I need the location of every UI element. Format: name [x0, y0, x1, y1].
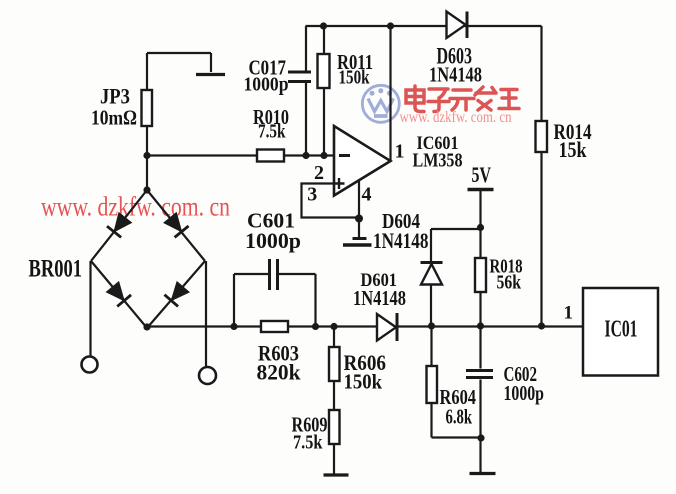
bridge rectifier BR001 diode top-right — [163, 212, 188, 237]
diode D604 — [421, 263, 443, 285]
resistor R603 — [261, 321, 288, 332]
junction dot C601 right — [312, 323, 319, 330]
svg-text:1N4148: 1N4148 — [373, 228, 429, 253]
watermark title 电子开发王 (drawn strokes) — [406, 86, 519, 112]
chassis bar near JP3 — [196, 73, 225, 76]
diode D601 — [377, 313, 397, 341]
wire: R011 vertical branch — [323, 26, 325, 156]
wire: C602 bottom lead — [479, 380, 481, 474]
terminal circle right — [199, 367, 216, 384]
svg-text:5V: 5V — [472, 162, 492, 187]
junction dot R606 top — [330, 323, 337, 330]
wire: 5V to R018 vertical — [479, 190, 481, 326]
svg-text:1000p: 1000p — [245, 228, 301, 253]
svg-text:www. dzkfw. com. cn: www. dzkfw. com. cn — [400, 109, 512, 126]
capacitor C602 — [466, 371, 493, 378]
junction dot R011 top — [320, 22, 327, 29]
svg-text:150k: 150k — [339, 67, 371, 89]
wire: C601 right lead — [279, 274, 316, 327]
wire: C602 top lead — [479, 326, 481, 369]
wire: R604 branch — [432, 326, 482, 438]
svg-text:7.5k: 7.5k — [258, 121, 286, 143]
resistor JP3 — [142, 90, 153, 126]
junction dot JP3 node — [143, 152, 150, 159]
junction dot pin4 loop — [355, 215, 363, 223]
bridge rectifier BR001 diode top-left — [107, 212, 132, 237]
resistor R011 — [318, 54, 330, 88]
junction dot R018 bottom — [477, 322, 484, 329]
wire: bridge edge top-left — [91, 190, 147, 261]
svg-text:2: 2 — [314, 162, 324, 184]
svg-text:4: 4 — [362, 184, 372, 206]
svg-text:56k: 56k — [497, 272, 522, 294]
junction dot bridge bottom — [143, 323, 150, 330]
svg-text:6.8k: 6.8k — [446, 405, 473, 429]
svg-text:1N4148: 1N4148 — [429, 63, 482, 87]
wire: C017 top lead — [305, 26, 307, 71]
wire: op-amp output to top bus — [389, 26, 391, 162]
wire: left terminal lead — [89, 261, 91, 357]
capacitor C601 — [270, 259, 278, 290]
svg-text:7.5k: 7.5k — [293, 432, 323, 454]
resistor R018 — [475, 258, 486, 292]
resistor R010 — [257, 150, 284, 162]
watermark logo W emblem — [362, 85, 399, 122]
junction dot R011 bottom — [320, 152, 327, 159]
wire: C017 bottom lead — [305, 83, 307, 156]
watermark left: www.dzkfw.com.cn — [41, 192, 230, 222]
wire: bridge edge bottom-right — [147, 261, 205, 328]
svg-text:BR001: BR001 — [29, 256, 83, 283]
ground below C602 — [470, 472, 496, 475]
wire: inverting input line — [147, 154, 334, 156]
wire: right terminal lead — [205, 261, 207, 367]
svg-text:1000p: 1000p — [244, 74, 289, 96]
svg-text:820k: 820k — [257, 360, 302, 385]
resistor R606 — [329, 347, 340, 381]
resistor R609 — [329, 410, 340, 444]
op-amp IC601 — [334, 126, 391, 196]
wire: bridge edge bottom-left — [91, 261, 147, 328]
wire: bottom bus — [147, 325, 583, 327]
svg-text:1000p: 1000p — [504, 381, 545, 405]
wire: JP3 top link to chassis — [147, 53, 211, 72]
svg-text:IC01: IC01 — [605, 317, 638, 343]
diode D603 — [447, 12, 468, 39]
ground below op-amp pin4 — [343, 239, 372, 246]
svg-text:1N4148: 1N4148 — [353, 286, 406, 310]
wire: top feedback bus — [306, 25, 542, 27]
watermark center url — [400, 109, 512, 126]
svg-text:1: 1 — [564, 303, 574, 324]
junction dot 5V node — [477, 224, 484, 231]
junction dot bridge top — [143, 186, 150, 193]
svg-text:15k: 15k — [559, 137, 588, 162]
resistor R604 — [427, 366, 438, 403]
capacitor C017 — [288, 72, 311, 82]
junction dot IC01 node — [538, 322, 545, 329]
wire: C601 left lead — [234, 274, 268, 327]
svg-text:10mΩ: 10mΩ — [91, 106, 137, 130]
junction dot C017 bottom — [302, 152, 309, 159]
junction dot C601 left — [230, 323, 237, 330]
ground below R609 — [324, 473, 349, 476]
wire: JP3 vertical branch — [146, 53, 148, 190]
bridge rectifier BR001 diode bottom-left — [106, 281, 131, 306]
svg-text:150k: 150k — [344, 370, 383, 394]
svg-text:LM358: LM358 — [413, 150, 463, 172]
wire: R606 R609 chain — [333, 327, 335, 475]
resistor R014 — [536, 121, 548, 152]
wire: non-inverting loop pin3 — [302, 184, 360, 218]
terminal circle left — [82, 357, 98, 373]
svg-text:1: 1 — [395, 141, 405, 163]
junction dot C602 R604 bottom — [477, 434, 484, 441]
IC01 box — [583, 288, 658, 376]
junction dot D604 bottom — [428, 322, 435, 329]
junction dot output top — [387, 22, 394, 29]
wire: bridge edge top-right — [147, 190, 205, 261]
wire: D604 top link — [431, 229, 480, 326]
bridge rectifier BR001 diode bottom-right — [164, 281, 189, 306]
wire: right vertical to R014 and IC01 node — [540, 26, 542, 326]
svg-text:3: 3 — [307, 184, 317, 206]
5V supply bar — [468, 188, 494, 191]
svg-text:www. dzkfw. com. cn: www. dzkfw. com. cn — [41, 192, 230, 222]
wire: pin4 to ground — [358, 180, 360, 239]
